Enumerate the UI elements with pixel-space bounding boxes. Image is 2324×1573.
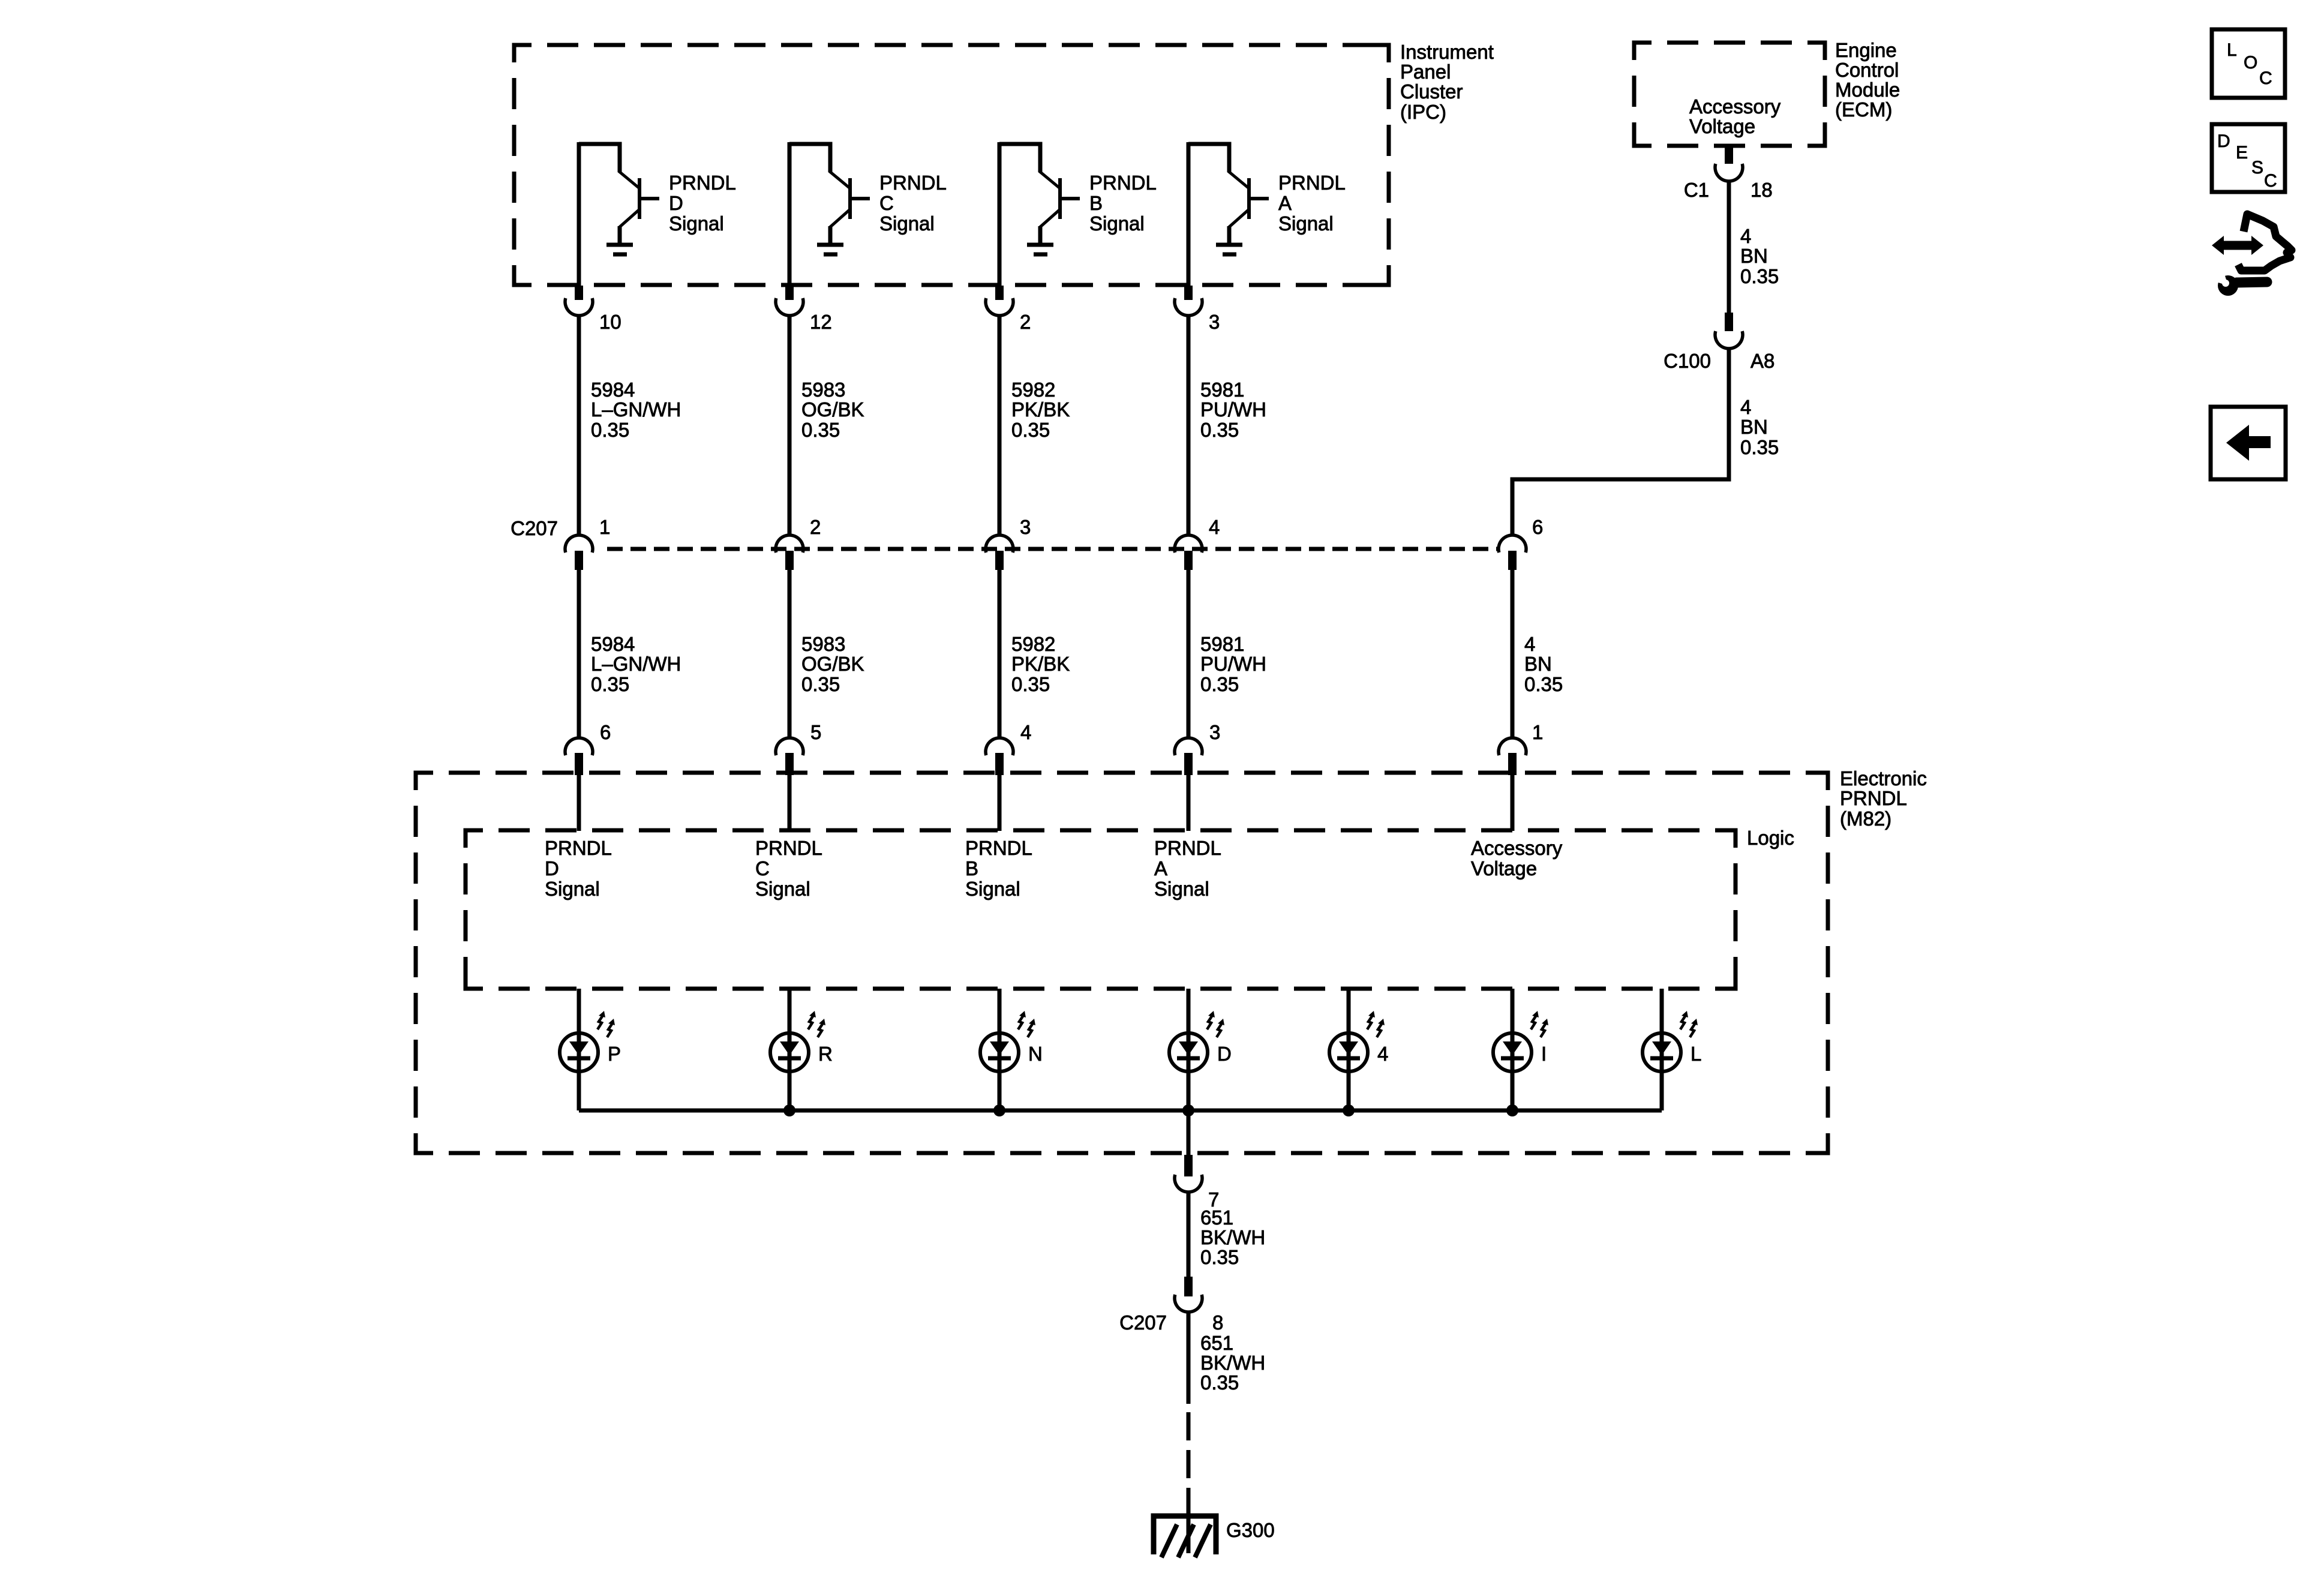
- transistor Q4 (PRNDL A driver): [1188, 144, 1269, 243]
- junction: [1182, 1104, 1194, 1116]
- svg-text:3: 3: [1209, 311, 1220, 333]
- ground (emitter of Q2): [817, 245, 843, 254]
- icon: DESC button: [2212, 124, 2285, 192]
- svg-text:Accessory: Accessory: [1471, 837, 1563, 859]
- label: PRNDL B Signal (logic input): [965, 837, 1032, 900]
- icon: LOC button: [2212, 29, 2285, 98]
- connector: C207 pin 6: [1499, 535, 1526, 570]
- label: wire 651 BK/WH 0.35 (lower): [1200, 1332, 1265, 1394]
- svg-text:0.35: 0.35: [801, 673, 840, 695]
- connector: C207 pin 4: [1175, 535, 1202, 570]
- label: wire 4 BN 0.35 (mid): [1740, 396, 1779, 458]
- svg-text:C207: C207: [1119, 1311, 1167, 1334]
- svg-text:5981: 5981: [1200, 379, 1244, 401]
- ground (emitter of Q3): [1027, 245, 1053, 254]
- wire: logic to LED 4 and bus: [1347, 989, 1351, 1110]
- svg-text:Signal: Signal: [879, 212, 935, 235]
- connector: Electronic PRNDL pin 5: [776, 738, 803, 775]
- wire: into logic block (A): [1187, 775, 1191, 831]
- svg-text:PRNDL: PRNDL: [1278, 172, 1346, 194]
- svg-text:651: 651: [1200, 1332, 1233, 1354]
- svg-text:D: D: [545, 857, 559, 879]
- svg-text:Engine: Engine: [1835, 39, 1897, 61]
- svg-text:Voltage: Voltage: [1471, 857, 1537, 879]
- connector: C207 pin 8: [1175, 1277, 1202, 1312]
- LED R indicator: [770, 1011, 825, 1071]
- wire: logic to LED N and bus: [998, 989, 1002, 1110]
- svg-text:E: E: [2236, 143, 2248, 163]
- svg-text:Signal: Signal: [1154, 878, 1209, 900]
- wire: circuit 651 BK/WH to ground: [1187, 1312, 1191, 1404]
- LED P indicator: [560, 1011, 615, 1071]
- connector: Electronic PRNDL pin 1: [1499, 738, 1526, 775]
- svg-text:0.35: 0.35: [1200, 1371, 1239, 1394]
- svg-text:S: S: [2251, 158, 2263, 178]
- svg-text:OG/BK: OG/BK: [801, 398, 864, 421]
- svg-text:Signal: Signal: [755, 878, 810, 900]
- label: PRNDL A Signal (logic input): [1154, 837, 1221, 900]
- svg-text:0.35: 0.35: [1011, 419, 1050, 441]
- svg-text:BN: BN: [1740, 416, 1768, 438]
- ground (emitter of Q4): [1216, 245, 1242, 254]
- wire: circuit 5981 from C207 to PRNDL module: [1187, 570, 1191, 739]
- wire: off-page continuation (dashed): [1187, 1412, 1191, 1512]
- svg-text:PRNDL: PRNDL: [879, 172, 947, 194]
- svg-text:0.35: 0.35: [1524, 673, 1563, 695]
- transistor Q3 (PRNDL B driver): [999, 144, 1080, 243]
- wire: into ground: [1187, 1512, 1191, 1553]
- svg-text:0.35: 0.35: [591, 419, 629, 441]
- label: PRNDL A Signal (IPC): [1278, 172, 1346, 235]
- svg-text:C100: C100: [1664, 350, 1711, 372]
- wire: circuit 651 BK/WH to C207: [1187, 1192, 1191, 1277]
- label: wire 4 BN 0.35 (upper): [1740, 225, 1779, 287]
- svg-text:10: 10: [599, 311, 621, 333]
- LED 4 indicator: [1329, 1011, 1385, 1071]
- connector: C100 pin A8: [1715, 313, 1743, 349]
- svg-text:8: 8: [1212, 1311, 1223, 1334]
- svg-text:A8: A8: [1750, 350, 1774, 372]
- svg-text:Cluster: Cluster: [1400, 80, 1463, 103]
- svg-text:N: N: [1028, 1043, 1043, 1065]
- svg-text:5982: 5982: [1011, 379, 1055, 401]
- svg-text:2: 2: [810, 516, 821, 538]
- pin label C100 A8: [1664, 350, 1774, 372]
- svg-text:P: P: [608, 1043, 621, 1065]
- wire: into logic block (B): [998, 775, 1002, 831]
- svg-text:(M82): (M82): [1840, 807, 1891, 830]
- svg-text:4: 4: [1209, 516, 1220, 538]
- svg-text:I: I: [1541, 1043, 1547, 1065]
- wire: circuit 5982 from IPC to C207: [998, 316, 1002, 536]
- wire: Q2 collector down to IPC connector: [788, 142, 792, 286]
- svg-text:0.35: 0.35: [1740, 265, 1779, 287]
- wire: into logic block (D): [577, 775, 581, 831]
- label: wire 5983 OG/BK 0.35 (lower): [801, 633, 864, 695]
- svg-text:Module: Module: [1835, 79, 1900, 101]
- svg-text:4: 4: [1377, 1043, 1388, 1065]
- icon: back arrow button: [2211, 407, 2286, 479]
- svg-text:Signal: Signal: [669, 212, 724, 235]
- label: wire 651 BK/WH 0.35 (upper): [1200, 1206, 1265, 1268]
- label: wire 4 BN 0.35 (lower): [1524, 633, 1563, 695]
- LED L indicator: [1643, 1011, 1698, 1071]
- wire: logic to LED I and bus: [1511, 989, 1515, 1110]
- label: Engine Control Module (ECM): [1835, 39, 1900, 121]
- svg-text:0.35: 0.35: [1200, 419, 1239, 441]
- svg-text:6: 6: [1532, 516, 1543, 538]
- label: PRNDL B Signal (IPC): [1089, 172, 1157, 235]
- wire: circuit 5981 from IPC to C207: [1187, 316, 1191, 536]
- wire: circuit 5984 from IPC to C207: [577, 316, 581, 536]
- svg-text:4: 4: [1740, 225, 1751, 247]
- svg-text:C: C: [879, 192, 894, 214]
- LED N indicator: [980, 1011, 1035, 1071]
- connector: C207 pin 1: [565, 535, 593, 570]
- svg-text:Instrument: Instrument: [1400, 41, 1494, 63]
- pin label C1 18: [1684, 179, 1773, 201]
- svg-text:0.35: 0.35: [1011, 673, 1050, 695]
- transistor Q1 (PRNDL D driver): [579, 144, 659, 243]
- ground (emitter of Q1): [606, 245, 633, 254]
- svg-text:PK/BK: PK/BK: [1011, 653, 1070, 675]
- transistor Q2 (PRNDL C driver): [789, 144, 870, 243]
- junction: [1343, 1104, 1355, 1116]
- wire: LED common cathode bus: [579, 1109, 1662, 1113]
- junction: [783, 1104, 795, 1116]
- label: wire 5983 OG/BK 0.35 (upper): [801, 379, 864, 441]
- connector: C207 pin 3: [986, 535, 1013, 570]
- svg-text:3: 3: [1209, 721, 1220, 743]
- connector: IPC pin 3: [1175, 286, 1202, 316]
- svg-text:Signal: Signal: [545, 878, 600, 900]
- wire: Q3 collector down to IPC connector: [998, 142, 1002, 286]
- svg-text:Control: Control: [1835, 59, 1899, 81]
- svg-text:BK/WH: BK/WH: [1200, 1226, 1265, 1248]
- svg-text:BN: BN: [1740, 245, 1768, 267]
- label: wire 5981 PU/WH 0.35 (lower): [1200, 633, 1266, 695]
- svg-text:0.35: 0.35: [1740, 436, 1779, 458]
- junction: [993, 1104, 1005, 1116]
- svg-text:3: 3: [1020, 516, 1031, 538]
- svg-text:6: 6: [600, 721, 611, 743]
- svg-text:O: O: [2244, 53, 2257, 73]
- connector: ECM C1 pin 18: [1715, 145, 1743, 181]
- wire: Q4 collector down to IPC connector: [1187, 142, 1191, 286]
- connector: IPC pin 12: [776, 286, 803, 316]
- label: wire 5984 L–GN/WH 0.35 (upper): [591, 379, 681, 441]
- svg-text:C: C: [2264, 171, 2277, 191]
- svg-text:BN: BN: [1524, 653, 1552, 675]
- svg-text:OG/BK: OG/BK: [801, 653, 864, 675]
- svg-text:2: 2: [1020, 311, 1031, 333]
- svg-text:BK/WH: BK/WH: [1200, 1352, 1265, 1374]
- svg-text:5984: 5984: [591, 633, 635, 655]
- connector: Electronic PRNDL pin 4: [986, 738, 1013, 775]
- svg-text:Panel: Panel: [1400, 61, 1451, 83]
- svg-text:A: A: [1154, 857, 1167, 879]
- label: PRNDL C Signal (IPC): [879, 172, 947, 235]
- svg-text:PRNDL: PRNDL: [669, 172, 736, 194]
- svg-text:D: D: [669, 192, 683, 214]
- svg-text:5983: 5983: [801, 633, 845, 655]
- connector: IPC pin 10: [565, 286, 593, 316]
- wire: circuit 5983 from IPC to C207: [788, 316, 792, 536]
- svg-text:PU/WH: PU/WH: [1200, 398, 1266, 421]
- svg-text:0.35: 0.35: [801, 419, 840, 441]
- wire: into logic block (C): [788, 775, 792, 831]
- pin label C207 8: [1119, 1311, 1223, 1334]
- svg-text:PRNDL: PRNDL: [755, 837, 822, 859]
- svg-text:Accessory: Accessory: [1689, 95, 1781, 118]
- label: PRNDL C Signal (logic input): [755, 837, 822, 900]
- wire: circuit 4 BN from C1 to C100: [1727, 181, 1731, 313]
- svg-text:R: R: [818, 1043, 833, 1065]
- svg-text:1: 1: [1532, 721, 1543, 743]
- svg-text:C1: C1: [1684, 179, 1709, 201]
- label: Accessory Voltage (logic input): [1471, 837, 1563, 879]
- svg-text:(ECM): (ECM): [1835, 98, 1892, 121]
- svg-text:D: D: [1217, 1043, 1232, 1065]
- svg-text:C: C: [755, 857, 770, 879]
- connector: C207 pin 2: [776, 535, 803, 570]
- wire: logic to LED R and bus: [788, 989, 792, 1110]
- icon: component locator (arrows / head / wrench): [2212, 214, 2292, 296]
- LED D indicator: [1169, 1011, 1224, 1071]
- svg-text:18: 18: [1750, 179, 1773, 201]
- label: wire 5981 PU/WH 0.35 (upper): [1200, 379, 1266, 441]
- svg-text:D: D: [2217, 131, 2230, 151]
- wire: logic to LED P and bus: [577, 989, 581, 1110]
- module box: Instrument Panel Cluster (IPC): [514, 45, 1389, 285]
- svg-text:4: 4: [1740, 396, 1751, 418]
- connector line C207 (dashed): [599, 547, 1499, 551]
- LED I indicator: [1493, 1011, 1548, 1071]
- svg-text:5: 5: [810, 721, 821, 743]
- svg-text:4: 4: [1524, 633, 1535, 655]
- svg-text:C: C: [2259, 68, 2272, 88]
- wire: circuit 4 BN from C207 to PRNDL module: [1511, 570, 1515, 739]
- logic block box: [466, 830, 1736, 989]
- svg-text:(IPC): (IPC): [1400, 101, 1446, 123]
- svg-text:L: L: [1691, 1043, 1701, 1065]
- svg-text:PU/WH: PU/WH: [1200, 653, 1266, 675]
- wire: Q1 collector down to IPC connector: [577, 142, 581, 286]
- connector: Electronic PRNDL pin 6: [565, 738, 593, 775]
- svg-text:B: B: [1089, 192, 1103, 214]
- svg-text:Signal: Signal: [965, 878, 1020, 900]
- svg-text:5984: 5984: [591, 379, 635, 401]
- svg-text:B: B: [965, 857, 978, 879]
- connector: Electronic PRNDL pin 3: [1175, 738, 1202, 775]
- ground G300: [1154, 1516, 1216, 1557]
- svg-text:Signal: Signal: [1278, 212, 1334, 235]
- svg-text:0.35: 0.35: [591, 673, 629, 695]
- svg-text:A: A: [1278, 192, 1292, 214]
- svg-text:PRNDL: PRNDL: [1840, 787, 1907, 809]
- wire: circuit 5982 from C207 to PRNDL module: [998, 570, 1002, 739]
- svg-text:PRNDL: PRNDL: [1089, 172, 1157, 194]
- wire: bus to module pin 7: [1187, 1110, 1191, 1155]
- connector: Electronic PRNDL pin 7: [1175, 1155, 1202, 1192]
- wire: accessory voltage into logic block: [1511, 775, 1515, 831]
- svg-text:651: 651: [1200, 1206, 1233, 1229]
- svg-text:PK/BK: PK/BK: [1011, 398, 1070, 421]
- label: PRNDL D Signal (logic input): [545, 837, 612, 900]
- wire: circuit 5984 from C207 to PRNDL module: [577, 570, 581, 739]
- svg-text:Logic: Logic: [1747, 827, 1794, 849]
- svg-text:Electronic: Electronic: [1840, 767, 1927, 789]
- label: Electronic PRNDL (M82): [1840, 767, 1927, 830]
- svg-text:PRNDL: PRNDL: [965, 837, 1032, 859]
- svg-text:G300: G300: [1226, 1519, 1275, 1541]
- wire: circuit 5983 from C207 to PRNDL module: [788, 570, 792, 739]
- svg-text:5981: 5981: [1200, 633, 1244, 655]
- svg-text:5983: 5983: [801, 379, 845, 401]
- label: PRNDL D Signal (IPC): [669, 172, 736, 235]
- module box: Engine Control Module (ECM): [1634, 43, 1825, 146]
- label: wire 5984 L–GN/WH 0.35 (lower): [591, 633, 681, 695]
- wire: logic to LED D and bus: [1187, 989, 1191, 1110]
- svg-text:0.35: 0.35: [1200, 673, 1239, 695]
- svg-text:Signal: Signal: [1089, 212, 1145, 235]
- label: wire 5982 PK/BK 0.35 (lower): [1011, 633, 1070, 695]
- svg-text:PRNDL: PRNDL: [1154, 837, 1221, 859]
- wire: circuit 4 BN from C100 down and over to C207 pin 6: [1512, 349, 1729, 536]
- junction: [1506, 1104, 1518, 1116]
- svg-text:L–GN/WH: L–GN/WH: [591, 653, 681, 675]
- svg-text:1: 1: [599, 516, 610, 538]
- connector: IPC pin 2: [986, 286, 1013, 316]
- wire: logic to LED L and bus: [1660, 989, 1664, 1110]
- label: Accessory Voltage (ECM output): [1689, 95, 1781, 137]
- module box: Electronic PRNDL (M82): [416, 773, 1828, 1153]
- svg-text:Voltage: Voltage: [1689, 115, 1755, 137]
- svg-text:PRNDL: PRNDL: [545, 837, 612, 859]
- svg-text:0.35: 0.35: [1200, 1246, 1239, 1268]
- svg-text:12: 12: [810, 311, 832, 333]
- svg-text:5982: 5982: [1011, 633, 1055, 655]
- label: Instrument Panel Cluster (IPC): [1400, 41, 1494, 123]
- svg-text:4: 4: [1020, 721, 1031, 743]
- label: wire 5982 PK/BK 0.35 (upper): [1011, 379, 1070, 441]
- svg-text:C207: C207: [511, 517, 558, 539]
- svg-text:L: L: [2227, 40, 2237, 60]
- svg-text:L–GN/WH: L–GN/WH: [591, 398, 681, 421]
